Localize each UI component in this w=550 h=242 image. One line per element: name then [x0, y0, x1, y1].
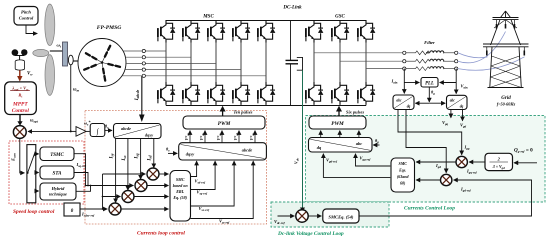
wire zero ref to summer3 — [103, 196, 121, 198]
GSC leg midpoint wires — [314, 43, 366, 83]
summer sq — [135, 180, 147, 192]
grid conductor b — [458, 32, 506, 63]
IGBT S8 bottom leg3 MSC — [208, 82, 225, 105]
wire to PLL left — [404, 82, 419, 84]
IGBT S5 top leg5 MSC — [258, 20, 275, 43]
dqxy to abcde transform box — [179, 143, 267, 160]
grid side nodes — [455, 51, 458, 70]
grid terminal nodes — [403, 51, 406, 70]
svg-text:ωm: ωm — [73, 88, 79, 93]
svg-text:ERL: ERL — [175, 189, 184, 194]
svg-text:abc: abc — [356, 141, 362, 146]
ten pulses arrow — [222, 111, 224, 116]
svg-text:technique: technique — [49, 192, 67, 197]
svg-text:Grid: Grid — [501, 96, 511, 101]
IGBT S9 bottom leg4 MSC — [233, 82, 250, 105]
wire pitch control to turbine — [26, 25, 34, 34]
wire I_gd from abc-dq — [406, 110, 446, 173]
IGBT G3 top leg3 GSC — [358, 20, 375, 43]
wire Hybrid output — [76, 186, 91, 192]
stator terminal nodes — [142, 49, 145, 77]
bottom stubs GSC legs — [314, 105, 366, 106]
IGBT G5 bottom leg2 GSC — [332, 82, 349, 105]
svg-text:abc: abc — [450, 99, 456, 103]
STA box — [40, 166, 74, 179]
transmission tower — [483, 11, 529, 88]
turbine blade left — [33, 49, 49, 56]
svg-text:Filter: Filter — [424, 40, 435, 45]
summer V_dc — [296, 210, 308, 222]
PWM box MSC — [183, 116, 265, 129]
svg-text:dq: dq — [407, 105, 411, 109]
IGBT S3 top leg3 MSC — [208, 20, 225, 43]
svg-text:Control: Control — [19, 16, 34, 21]
currents control loop region (GSC, teal dashed box) — [306, 116, 546, 203]
speed summer — [13, 126, 26, 139]
abc to dq transform (currents) — [393, 95, 414, 110]
coupling ellipse — [68, 55, 73, 65]
stator phase line e — [122, 75, 266, 77]
turbine blade top — [45, 4, 55, 46]
RL filter phase a — [406, 51, 455, 55]
wire I_gd-ref feedback from SMC Eq 54 — [359, 180, 532, 216]
pitch control box — [14, 7, 38, 26]
wire summer sq to SMC — [147, 185, 168, 187]
IGBT G1 top leg1 GSC — [306, 20, 323, 43]
wire summer to SMC Eq 54 — [308, 215, 321, 217]
pole pairs gain triangle — [76, 127, 86, 137]
wire I_sq-ref to summer — [86, 185, 134, 187]
IGBT G2 top leg2 GSC — [332, 20, 349, 43]
IGBT S10 bottom leg5 MSC — [258, 82, 275, 105]
MPPT control box — [5, 82, 37, 115]
svg-text:68): 68) — [400, 181, 406, 186]
wire V_abc tap — [455, 69, 457, 94]
IGBT G6 bottom leg3 GSC — [358, 82, 375, 105]
wire V_sd-ref — [191, 161, 197, 176]
stator phase line d — [125, 69, 241, 71]
wire selector to Hybrid — [36, 190, 39, 192]
SMC Eqs box GSC — [391, 158, 415, 192]
grid phase line a — [314, 52, 403, 54]
Qg reference gain box — [485, 153, 513, 170]
summer I_gd — [441, 174, 452, 185]
bottom stubs MSC legs — [166, 105, 266, 106]
wire I_sdxy-ref to summer4 — [80, 208, 107, 210]
shaft to generator — [73, 60, 78, 62]
svg-text:Isy: Isy — [110, 153, 115, 159]
stator phase line c — [126, 62, 216, 64]
svg-text:STA: STA — [53, 172, 63, 177]
IGBT S4 top leg4 MSC — [233, 20, 250, 43]
svg-text:dqxy: dqxy — [145, 133, 153, 138]
stator phase line b — [125, 56, 191, 58]
svg-text:TSMC: TSMC — [50, 153, 64, 158]
svg-text:f=50-60Hz: f=50-60Hz — [497, 102, 516, 107]
svg-text:Isq: Isq — [135, 153, 140, 159]
MSC leg midpoint wires — [166, 43, 266, 83]
integrator box — [90, 124, 105, 137]
svg-text:ωopt: ωopt — [30, 119, 39, 124]
selector switch — [27, 145, 36, 203]
svg-text:Pitch: Pitch — [21, 10, 31, 15]
svg-text:Speed loop control: Speed loop control — [13, 209, 55, 215]
wire summer sd to SMC — [159, 173, 168, 175]
svg-text:GSC: GSC — [335, 15, 345, 20]
RL filter phase b — [406, 59, 455, 63]
svg-text:Currents loop control: Currents loop control — [137, 231, 185, 237]
wire theta_g from PLL — [428, 87, 430, 102]
svg-text:(63and: (63and — [397, 174, 410, 179]
summer sy — [109, 203, 121, 215]
IGBT G4 bottom leg1 GSC — [306, 82, 323, 105]
wire omega_m to pole-pairs gain — [71, 130, 76, 132]
zero reference box — [64, 203, 80, 216]
wire I_gq from abc-dq — [398, 110, 462, 155]
wire summer gd to SMC — [416, 179, 440, 181]
wire Q_g-ref input — [514, 162, 537, 164]
TSMC box — [40, 147, 74, 161]
svg-text:Currents Control Loop: Currents Control Loop — [404, 206, 455, 212]
svg-text:PWM: PWM — [218, 121, 231, 127]
IGBT S2 top leg2 MSC — [183, 20, 200, 43]
wire summer sx to SMC — [134, 196, 168, 198]
wire i_sq — [140, 139, 142, 180]
zero net vertical junction — [102, 174, 104, 209]
wire to integrator — [86, 130, 90, 132]
svg-text:SMC: SMC — [176, 177, 185, 182]
Hybrid technique box — [40, 183, 76, 200]
wire speed error to selector — [20, 138, 25, 173]
stator phase line a — [123, 50, 166, 52]
grid phase line b — [340, 60, 403, 62]
svg-text:FP-PMSG: FP-PMSG — [97, 25, 122, 31]
grid phase line c — [366, 68, 403, 70]
labels V*_sa..V*_se — [184, 133, 255, 141]
wire to PLL right — [440, 82, 457, 84]
svg-text:dq: dq — [460, 105, 464, 109]
svg-text:Isd: Isd — [148, 155, 153, 161]
vdc sense bracket — [297, 57, 303, 70]
wind arrow Vw — [19, 70, 21, 76]
SMC Eq 54 box — [323, 209, 359, 223]
abc to dq transform (voltages) — [447, 95, 468, 109]
svg-text:MSC: MSC — [202, 15, 214, 20]
wires Vs* refs to PWM — [190, 131, 255, 143]
turbine hub and shaft — [50, 50, 63, 52]
wire selector to TSMC — [36, 153, 39, 155]
wire V_sx-ref — [191, 161, 235, 206]
wire theta_e to dqxy-abcde — [168, 152, 177, 154]
svg-text:abc: abc — [396, 99, 402, 103]
wires abc to PWM — [321, 131, 359, 138]
six pulses arrow — [338, 111, 340, 116]
svg-text:dqxy: dqxy — [186, 152, 195, 157]
dc bus top — [166, 20, 366, 22]
RL filter phase c — [406, 67, 455, 71]
turbine blade bottom — [45, 55, 55, 96]
current measurement tap I_abcde — [141, 76, 143, 116]
abcde to dqxy transform box — [114, 124, 162, 139]
dq to abc transform box — [309, 138, 373, 153]
wire MPPT to speed summer — [19, 115, 21, 122]
svg-text:Ten pulses: Ten pulses — [234, 110, 253, 115]
wire i_sx — [127, 139, 129, 191]
wire V_gd out — [462, 110, 464, 121]
svg-text:Eqs.: Eqs. — [398, 168, 406, 173]
wire V_dc-ref input — [278, 215, 295, 217]
wire summer gq to SMC — [416, 161, 456, 163]
svg-text:MPPT: MPPT — [12, 102, 28, 108]
generator FP-PMSG — [78, 39, 126, 87]
wire V_sy-ref — [191, 161, 254, 218]
svg-text:Isx: Isx — [122, 155, 127, 161]
wire STA output — [74, 173, 88, 186]
svg-text:Six pulses: Six pulses — [346, 110, 364, 115]
wire V_gd-ref — [323, 154, 390, 178]
wire selector to STA — [36, 172, 39, 174]
svg-text:SMC: SMC — [398, 161, 407, 166]
IGBT S6 bottom leg1 MSC — [158, 82, 175, 105]
grid conductor a — [458, 53, 488, 58]
svg-text:PLL: PLL — [425, 82, 434, 87]
wire theta_g to dq-abc — [373, 144, 379, 146]
wire theta_e to abcde-dqxy — [105, 129, 112, 131]
wire omega_m to speed summer — [28, 65, 71, 132]
svg-text:Control: Control — [12, 108, 30, 114]
PWM box GSC — [309, 116, 366, 129]
dc-link capacitor — [286, 20, 299, 106]
dc bus bottom — [166, 105, 366, 107]
wire i_sd — [153, 139, 155, 168]
svg-text:Eq. (58): Eq. (58) — [172, 195, 187, 200]
svg-text:Hybrid: Hybrid — [51, 186, 65, 191]
svg-text:abcde: abcde — [242, 148, 253, 153]
summer sx — [122, 191, 134, 203]
svg-text:Dc-link Voltage Control Loop: Dc-link Voltage Control Loop — [277, 231, 344, 237]
wire theta_g to both transforms — [415, 102, 429, 104]
wire zero ref to summer1 — [103, 173, 146, 175]
summer I_gq — [456, 156, 467, 167]
wire TSMC output — [74, 154, 86, 186]
svg-text:PWM: PWM — [331, 121, 344, 127]
anemometer — [12, 49, 28, 70]
IGBT S1 top leg1 MSC — [158, 20, 175, 43]
PLL box — [421, 78, 438, 88]
svg-text:SMCEq. (54): SMCEq. (54) — [328, 214, 353, 219]
wire V_dc down to dc-link loop — [302, 70, 304, 208]
wire summer sy to SMC — [121, 208, 168, 210]
gearbox block — [63, 42, 68, 66]
svg-text:Vw: Vw — [27, 72, 33, 77]
wire V_sq-ref — [191, 161, 216, 189]
svg-text:based on: based on — [173, 183, 189, 188]
wire i_sy — [115, 139, 117, 203]
svg-text:DC-Link: DC-Link — [282, 6, 302, 11]
speed loop control region (red dashed box) — [9, 141, 84, 204]
wire I_abc tap — [403, 69, 405, 94]
grid conductor c — [458, 57, 525, 70]
summer sd — [147, 168, 159, 180]
wire V_gq out — [450, 110, 452, 118]
svg-text:Iabcde: Iabcde — [135, 89, 140, 101]
SMC ERL box — [170, 171, 191, 222]
currents loop control region (MSC, tan dashed box) — [85, 111, 267, 225]
wire I_gq-ref to summer — [469, 161, 485, 163]
IGBT S7 bottom leg2 MSC — [183, 82, 200, 105]
dc-link voltage control loop region (green dashed box) — [271, 202, 389, 227]
svg-text:abcde: abcde — [121, 126, 131, 131]
wire V_gq-ref — [356, 154, 391, 166]
